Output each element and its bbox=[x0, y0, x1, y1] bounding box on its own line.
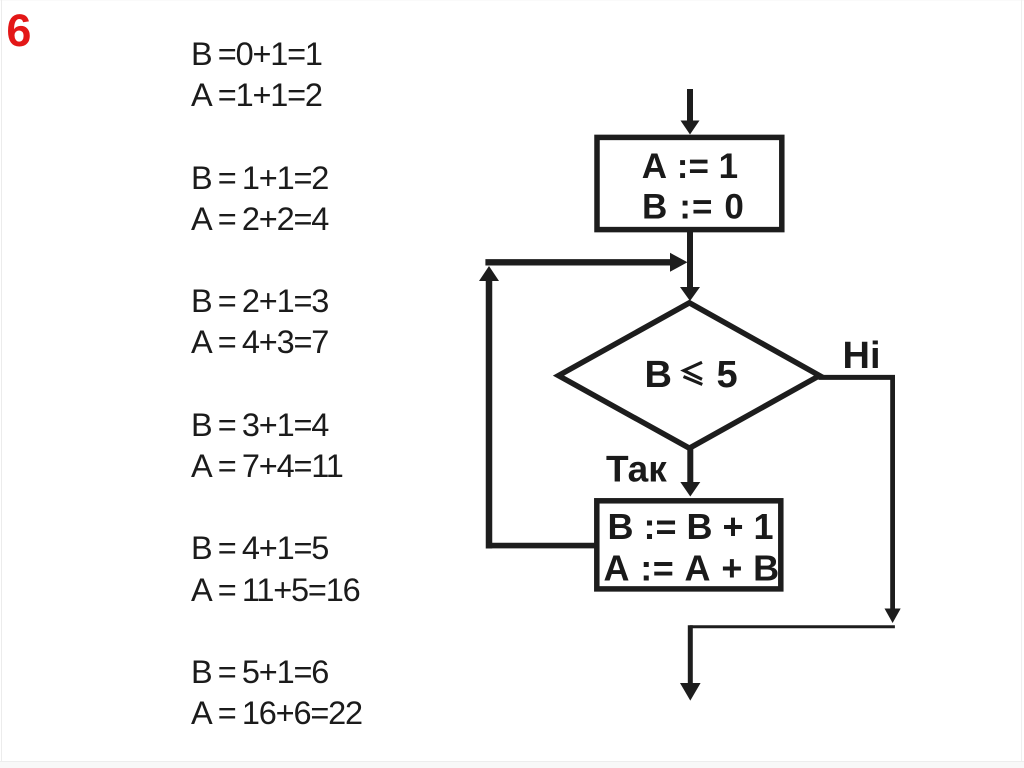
process box P2 bbox=[597, 501, 781, 589]
wire: loop-back bottom horizontal from box P2 bbox=[486, 543, 597, 549]
svg-text:5: 5 bbox=[717, 354, 738, 396]
wire: start arrow into box P1 bbox=[681, 89, 700, 135]
svg-text:В: В bbox=[645, 354, 672, 396]
trace text column bbox=[191, 34, 362, 734]
bottom band bbox=[0, 761, 1024, 768]
wire: loop-back horizontal with right arrowhead into junction bbox=[485, 253, 687, 272]
svg-text:Так: Так bbox=[606, 449, 667, 490]
wire: D1 to box P2 with down arrowhead bbox=[680, 448, 700, 497]
svg-text:В := В + 1: В := В + 1 bbox=[608, 506, 774, 547]
wire: loop-back left vertical with up arrowhead bbox=[479, 266, 499, 549]
symbol: less-than-or-slanted-equal bbox=[684, 362, 703, 384]
slide number 6 bbox=[6, 8, 31, 53]
decision diamond D1 bbox=[559, 303, 820, 448]
svg-text:Ні: Ні bbox=[843, 335, 881, 377]
wire: thin connector horizontal bbox=[690, 625, 895, 628]
svg-text:А := А + В: А := А + В bbox=[604, 547, 780, 588]
wire: P1 to decision D1 bbox=[680, 232, 700, 301]
wire: exit vertical with down arrowhead bbox=[680, 625, 701, 700]
svg-text:В := 0: В := 0 bbox=[642, 188, 745, 227]
process box P1 bbox=[597, 137, 782, 229]
page frame bbox=[0, 0, 1024, 1]
svg-text:А := 1: А := 1 bbox=[642, 147, 738, 186]
wire: Ні branch horizontal bbox=[819, 375, 896, 380]
wire: Ні branch vertical with down arrowhead bbox=[885, 375, 901, 623]
